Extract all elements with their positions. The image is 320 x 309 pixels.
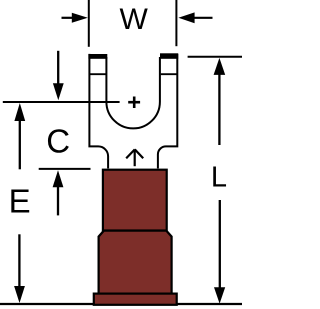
svg-text:E: E	[9, 182, 31, 219]
barrel top reference line (line B)	[39, 168, 91, 170]
fork slot inner walls and semicircular bottom	[106, 57, 159, 128]
dimension C bottom arrow (points up to barrel top line)	[53, 170, 64, 215]
bottom base reference line	[0, 303, 242, 305]
left prong tip bar	[88, 54, 107, 59]
dimension E bottom arrow (points down to base line)	[14, 234, 25, 303]
insulation barrel upper section	[103, 170, 167, 231]
right prong tip bar	[160, 53, 178, 59]
stud centerline (line A)	[3, 101, 120, 103]
insulation barrel lower wider section	[99, 231, 172, 294]
left prong seam band line	[89, 73, 106, 75]
terminal fork left outer profile with shoulder and neck	[89, 54, 108, 168]
svg-text:C: C	[46, 122, 70, 159]
dimension L top arrow (points up)	[214, 58, 226, 145]
dimension L top reference line	[188, 56, 242, 58]
stud center cross mark	[128, 97, 140, 109]
dimension C top arrow (points down to stud centerline)	[53, 51, 64, 101]
dimension W extension line right	[175, 0, 177, 46]
dimension W extension line left	[88, 0, 90, 47]
dimension E top arrow (points up to stud centerline)	[14, 103, 25, 169]
insulation barrel bottom flange	[94, 294, 177, 305]
svg-text:L: L	[211, 161, 227, 193]
terminal fork right outer profile with shoulder and neck	[158, 54, 177, 168]
wire insertion direction arrow	[126, 149, 143, 166]
dimension W right arrow	[178, 12, 212, 23]
dimension W left arrow	[62, 13, 88, 23]
dimension L bottom arrow (points down)	[214, 200, 225, 304]
right prong seam band line	[161, 73, 178, 75]
svg-text:W: W	[120, 3, 149, 36]
